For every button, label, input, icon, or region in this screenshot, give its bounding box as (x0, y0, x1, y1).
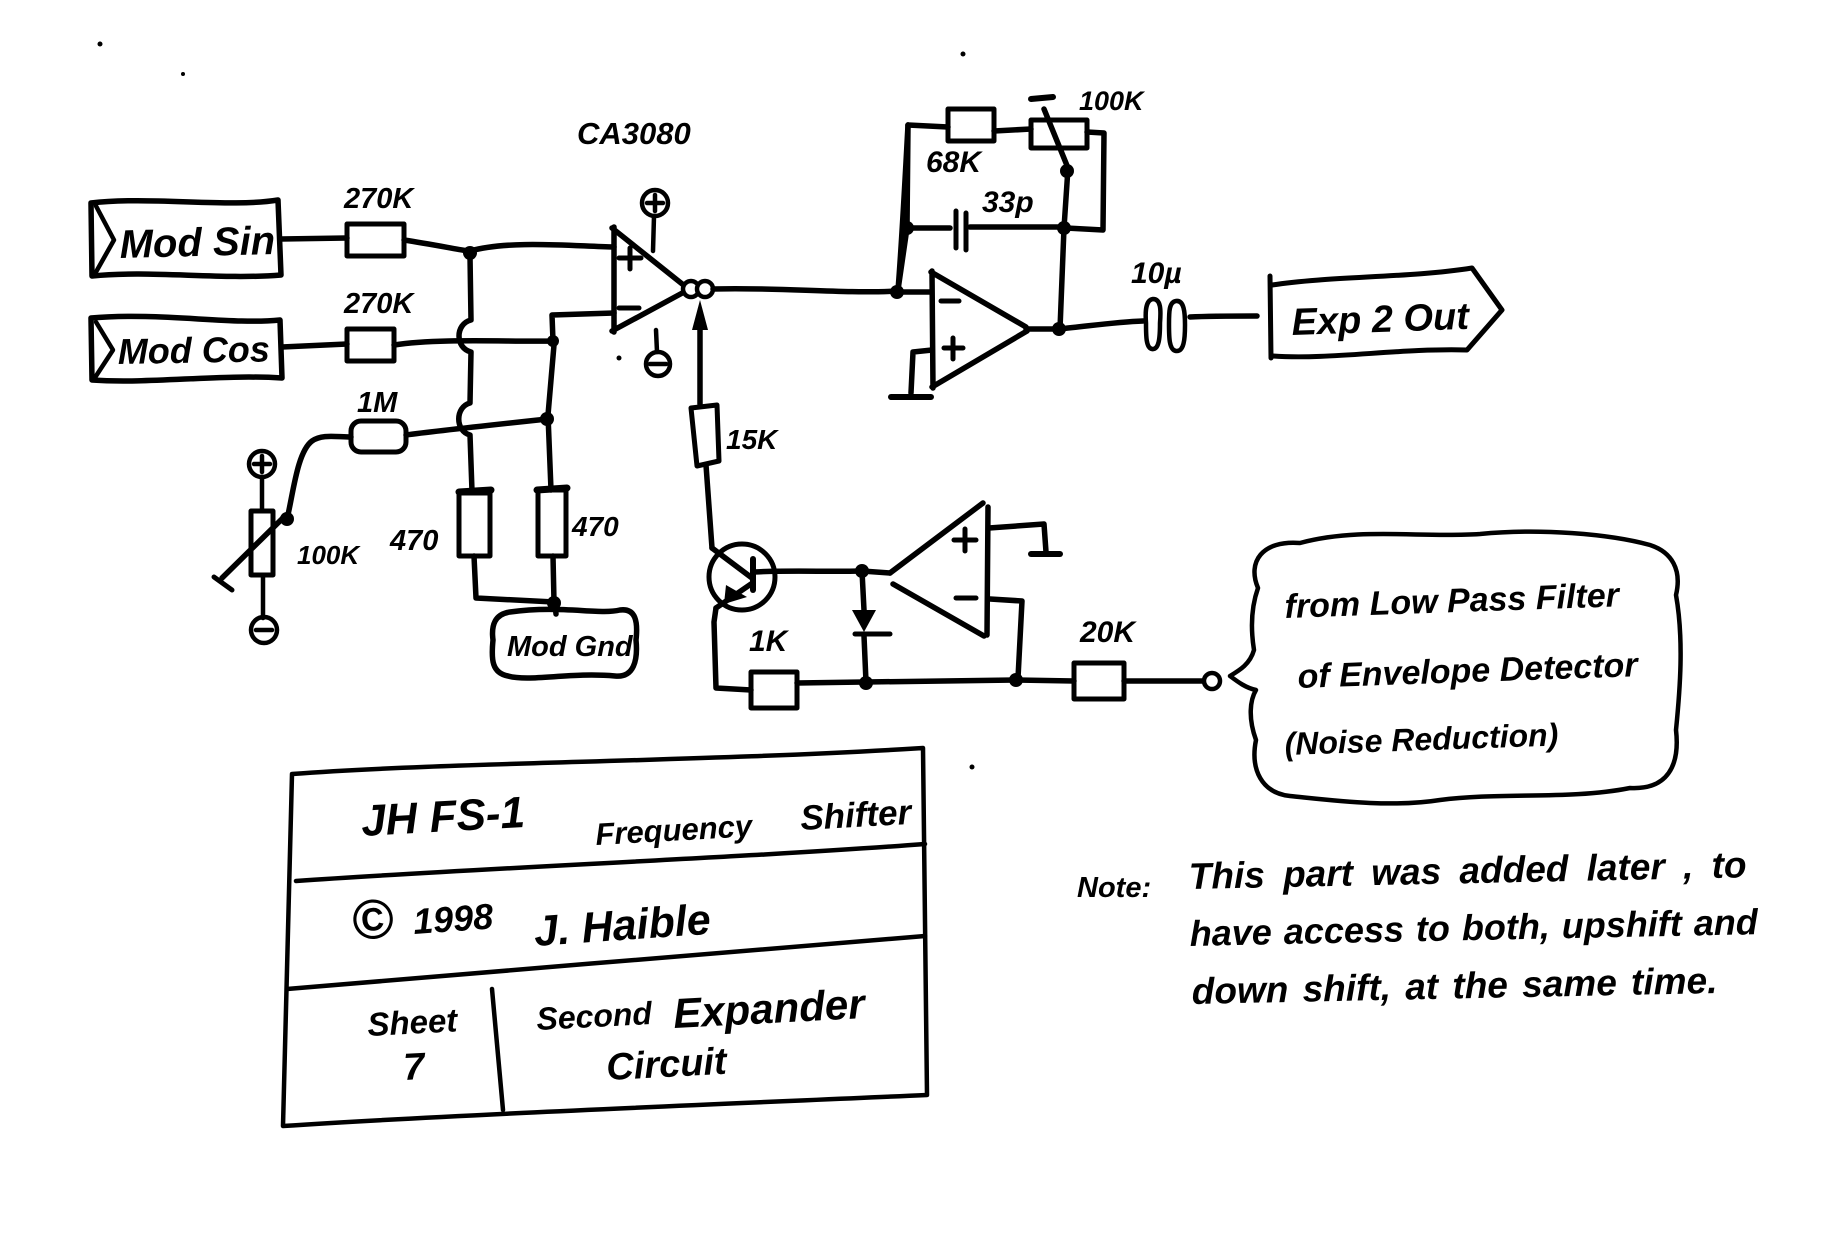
svg-text:JH FS-1: JH FS-1 (360, 788, 526, 846)
resistor 270K (bottom) (343, 288, 415, 361)
resistor 1M (351, 387, 406, 452)
svg-text:470: 470 (571, 511, 619, 542)
U3 + input ground (891, 350, 932, 397)
wire R270K to node A (404, 240, 468, 251)
arrow from 15K up to output (692, 300, 708, 404)
wire 1K to diode node (797, 682, 864, 683)
node B junction (547, 335, 559, 347)
svg-text:Exp 2 Out: Exp 2 Out (1291, 296, 1471, 344)
power +V symbol (pot top) (249, 451, 275, 511)
wire 20K to input ring (1124, 678, 1203, 684)
node main junction dot (890, 285, 904, 299)
op-amp U1 CA3080 (577, 116, 691, 332)
diode D1 (852, 571, 890, 682)
svg-text:1M: 1M (357, 387, 398, 419)
svg-text:Circuit: Circuit (605, 1041, 729, 1089)
title block (283, 748, 927, 1126)
wire main node to U3 - input (897, 289, 931, 295)
op-amp U3 (output stage) (931, 271, 1027, 388)
svg-text:20K: 20K (1079, 616, 1137, 649)
svg-text:©: © (349, 886, 395, 952)
op-amp U2 (comparator, pointing left) (862, 503, 988, 636)
svg-text:1998: 1998 (412, 895, 495, 941)
svg-text:470: 470 (389, 525, 438, 557)
wire CA3080 output to U3 - input node (713, 289, 897, 292)
port Mod Gnd box (492, 609, 636, 678)
resistor 270K (top) (343, 183, 415, 256)
CA3080 output double circle (683, 281, 713, 297)
svg-text:Note:: Note: (1077, 872, 1151, 904)
output port Exp 2 Out (1270, 268, 1502, 358)
wire vertical node B down to 470 right (548, 345, 554, 490)
capacitor 33p (907, 186, 1062, 250)
potentiometer 100K (bias) (214, 511, 361, 590)
wire Mod Sin to R 270K (281, 238, 347, 239)
input port Mod Cos (91, 316, 282, 381)
wire left node up (898, 125, 908, 290)
wire emitter down to 1K (714, 608, 751, 690)
ink speck (181, 72, 185, 76)
wire node to feedback vertical (898, 125, 908, 290)
wire 1M node to pot wiper (287, 436, 351, 519)
svg-text:CA3080: CA3080 (577, 116, 691, 151)
wire 10u to Exp2 Out (1190, 316, 1257, 317)
wire output node to 10u (1059, 321, 1143, 329)
ink speck (970, 765, 975, 770)
cloud bubble from Low Pass Filter (1230, 532, 1681, 804)
wire 1M to node on vertical B (406, 419, 547, 435)
resistor 470 (right) (537, 488, 619, 556)
wire 68K to pot (994, 129, 1031, 131)
resistor 20K (1074, 616, 1137, 699)
node base junction dot (855, 564, 869, 578)
wire pot right end down to 33p node (1066, 132, 1104, 230)
svg-text:7: 7 (402, 1046, 427, 1089)
wire R270K(2) to node B (394, 341, 551, 345)
node wiper junction dot (1060, 164, 1074, 178)
ink speck (961, 52, 966, 57)
svg-text:Mod Sin: Mod Sin (119, 219, 276, 267)
wire into Mod Gnd box (555, 604, 556, 614)
U2 + input to ground (989, 524, 1060, 554)
capacitor 10u (1131, 257, 1185, 351)
node 33p left junction dot (900, 221, 914, 235)
svg-text:100K: 100K (297, 540, 361, 570)
resistor 68K (926, 109, 994, 179)
resistor 1K (749, 625, 797, 708)
wire vertical from node A down with hops (459, 256, 472, 491)
ink speck (617, 356, 622, 361)
svg-text:Sheet: Sheet (366, 1001, 460, 1043)
node 33p right junction dot (1057, 221, 1071, 235)
ink speck (98, 42, 103, 47)
svg-text:10µ: 10µ (1131, 257, 1182, 290)
svg-text:15K: 15K (726, 424, 779, 455)
resistor 15K (691, 405, 779, 466)
node 20K junction dot (1009, 673, 1023, 687)
svg-text:Shifter: Shifter (799, 793, 914, 838)
potentiometer 100K (gain trim) (1031, 86, 1146, 168)
power -V symbol (pot bottom) (251, 575, 277, 643)
power -V symbol (CA3080) (646, 330, 670, 376)
node input ring (1204, 673, 1220, 689)
wire 470 left to Mod Gnd node (474, 556, 554, 602)
svg-text:Mod Cos: Mod Cos (117, 328, 270, 372)
note text (1077, 844, 1759, 1012)
svg-text:270K: 270K (343, 183, 415, 215)
svg-text:33p: 33p (982, 186, 1034, 219)
wire 470 right to Mod Gnd (553, 556, 554, 602)
power +V symbol (CA3080) (642, 190, 668, 251)
svg-text:100K: 100K (1079, 86, 1146, 116)
node A junction dot (463, 246, 477, 260)
U2 - input wire down to rail (990, 599, 1022, 678)
wire top to 68K (908, 125, 948, 127)
wire node A to CA3080 + input (470, 244, 614, 251)
wire 15K to transistor collector (706, 465, 712, 548)
wire bottom rail to 20K (866, 680, 1074, 682)
svg-text:1K: 1K (749, 625, 790, 658)
node 1M junction dot (540, 412, 554, 426)
transistor Q1 (709, 544, 860, 610)
resistor 470 (left) (389, 490, 491, 557)
wire U3 output (1026, 326, 1059, 332)
node pot wiper junction dot (280, 512, 294, 526)
node Mod Gnd junction dot (547, 596, 561, 610)
wire node B up to CA3080 - input (552, 313, 614, 341)
node diode bottom junction dot (859, 676, 873, 690)
svg-text:Second: Second (535, 995, 654, 1037)
svg-text:68K: 68K (926, 146, 983, 179)
svg-text:Mod Gnd: Mod Gnd (507, 631, 634, 663)
wire pot wiper down to output node (1060, 168, 1068, 329)
svg-text:270K: 270K (343, 288, 415, 320)
input port Mod Sin (91, 200, 281, 276)
node U3 output junction dot (1052, 322, 1066, 336)
wire Mod Cos to R 270K (2) (282, 344, 347, 347)
